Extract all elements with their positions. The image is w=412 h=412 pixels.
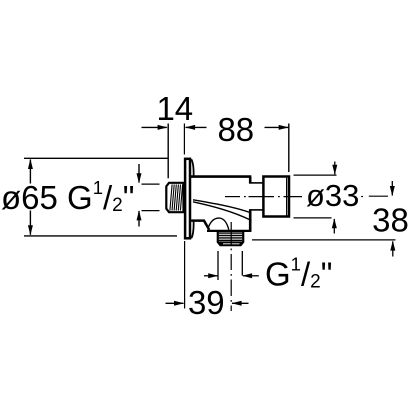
svg-text:14: 14 — [156, 90, 193, 127]
svg-text:38: 38 — [372, 201, 409, 238]
svg-text:39: 39 — [188, 284, 225, 321]
svg-text:ø33: ø33 — [306, 178, 359, 213]
svg-text:88: 88 — [217, 111, 254, 148]
